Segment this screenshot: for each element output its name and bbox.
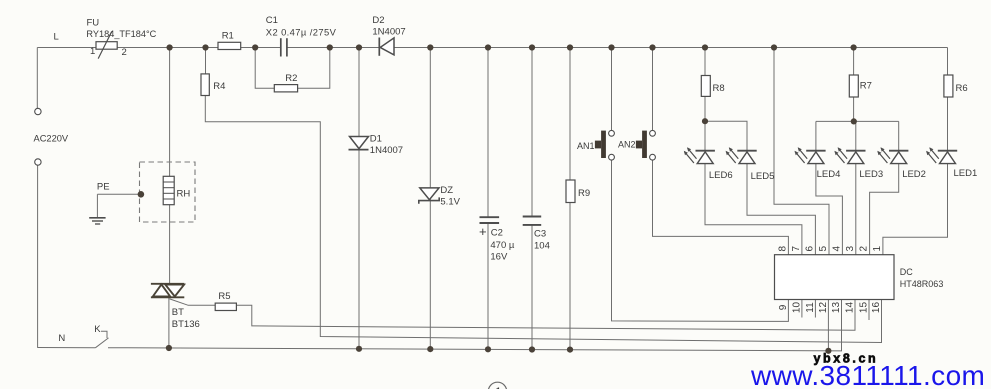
svg-text:14: 14: [844, 302, 855, 314]
svg-text:C2: C2: [491, 228, 503, 239]
svg-text:D1: D1: [370, 134, 382, 145]
svg-text:13: 13: [831, 302, 842, 314]
svg-text:LED5: LED5: [751, 171, 775, 182]
svg-text:10: 10: [791, 302, 802, 314]
svg-text:R7: R7: [860, 81, 872, 92]
svg-text:9: 9: [778, 304, 789, 310]
svg-text:3: 3: [845, 245, 856, 251]
svg-text:1N4007: 1N4007: [370, 145, 403, 156]
svg-text:N: N: [58, 333, 65, 344]
svg-text:FU: FU: [87, 18, 100, 29]
svg-text:104: 104: [534, 241, 550, 252]
svg-text:1: 1: [495, 385, 502, 389]
svg-text:AN2: AN2: [618, 140, 636, 150]
svg-text:C1: C1: [266, 15, 278, 26]
svg-text:6: 6: [804, 245, 815, 251]
svg-text:8: 8: [777, 245, 788, 251]
svg-text:11: 11: [805, 302, 816, 313]
svg-text:RY184_TF184°C: RY184_TF184°C: [86, 29, 156, 39]
svg-text:12: 12: [818, 302, 829, 314]
svg-text:4: 4: [831, 245, 842, 251]
svg-text:LED2: LED2: [902, 169, 926, 180]
svg-text:7: 7: [791, 245, 802, 251]
svg-text:R6: R6: [956, 83, 968, 94]
svg-text:HT48R063: HT48R063: [900, 279, 944, 289]
svg-text:1: 1: [90, 46, 95, 57]
svg-text:5.1V: 5.1V: [440, 197, 460, 208]
svg-text:1: 1: [872, 245, 883, 251]
svg-text:DC: DC: [900, 267, 913, 277]
svg-text:BT: BT: [172, 307, 184, 318]
svg-text:R2: R2: [285, 73, 297, 84]
svg-text:LED1: LED1: [954, 168, 978, 179]
svg-text:PE: PE: [97, 182, 110, 193]
svg-text:X2 0.47µ /275V: X2 0.47µ /275V: [266, 27, 337, 38]
svg-text:K: K: [94, 324, 101, 335]
svg-text:C3: C3: [534, 229, 546, 240]
svg-text:5: 5: [818, 245, 829, 251]
svg-text:470 µ: 470 µ: [490, 240, 514, 251]
svg-text:R8: R8: [713, 83, 725, 94]
svg-text:1N4007: 1N4007: [372, 26, 405, 37]
svg-text:R1: R1: [222, 31, 234, 42]
svg-text:BT136: BT136: [172, 319, 200, 330]
svg-text:DZ: DZ: [440, 185, 453, 196]
svg-text:2: 2: [859, 245, 870, 251]
svg-text:AN1: AN1: [577, 141, 595, 151]
svg-text:+: +: [479, 224, 487, 239]
svg-text:16: 16: [871, 302, 882, 314]
svg-text:L: L: [54, 32, 59, 43]
svg-text:2: 2: [122, 47, 127, 58]
svg-text:www.3811111.com: www.3811111.com: [750, 360, 985, 389]
svg-text:LED6: LED6: [709, 170, 733, 181]
svg-text:R9: R9: [578, 188, 590, 199]
svg-text:LED3: LED3: [859, 169, 883, 180]
svg-text:RH: RH: [177, 189, 191, 200]
svg-text:D2: D2: [372, 15, 384, 26]
svg-text:R4: R4: [213, 81, 225, 92]
svg-text:R5: R5: [218, 291, 230, 302]
svg-text:LED4: LED4: [817, 169, 841, 180]
svg-text:15: 15: [858, 302, 869, 314]
svg-text:AC220V: AC220V: [34, 134, 69, 144]
svg-text:16V: 16V: [490, 251, 508, 262]
